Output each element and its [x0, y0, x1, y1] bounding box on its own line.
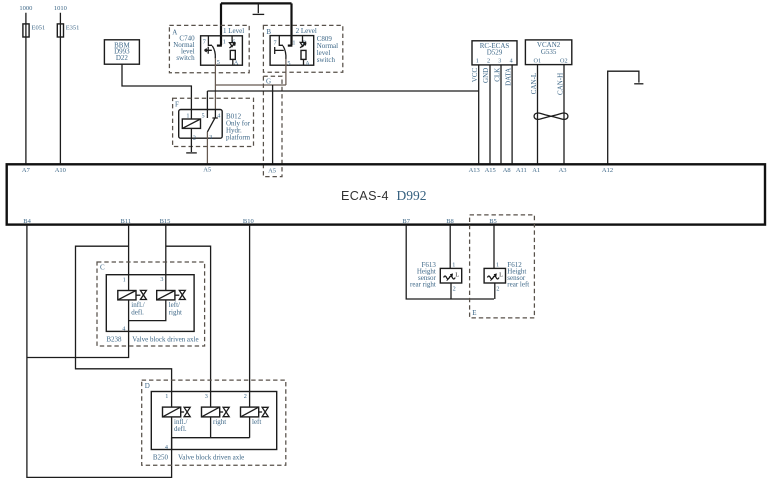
- ECU ECAS-4 D992 box: [7, 164, 765, 224]
- svg-text:B8: B8: [446, 218, 454, 225]
- wire valve D pin4: [171, 438, 173, 450]
- wire from 1000 to ECAS A7: [25, 13, 27, 165]
- svg-text:2: 2: [487, 58, 490, 65]
- svg-text:1: 1: [165, 393, 168, 400]
- switch B resistor: [301, 50, 306, 59]
- svg-text:A: A: [305, 60, 310, 67]
- svg-text:Valve block driven axle: Valve block driven axle: [178, 453, 244, 461]
- wire B10 to valve D pin2: [249, 225, 251, 407]
- switch A actuator arrow: [205, 47, 212, 54]
- switch A LED: [229, 36, 235, 48]
- wire relay pin5 to RC-ECAS VCC net: [207, 90, 478, 92]
- solenoid valve infl/defl (D): [163, 407, 181, 417]
- svg-text:2: 2: [244, 393, 247, 400]
- svg-text:B5: B5: [489, 218, 497, 225]
- svg-text:L: L: [499, 271, 503, 278]
- svg-text:4: 4: [165, 444, 168, 451]
- ground (under relay): [186, 152, 197, 154]
- svg-text:A1: A1: [532, 167, 540, 174]
- svg-text:Valve block driven axle: Valve block driven axle: [132, 336, 198, 344]
- svg-text:platform: platform: [226, 134, 251, 142]
- wire grey net to relay pin4: [214, 85, 216, 110]
- valve block B250 box: [151, 392, 276, 450]
- wire B5 to sensor F612: [493, 225, 495, 269]
- svg-text:1: 1: [123, 276, 126, 283]
- svg-text:7: 7: [203, 39, 206, 46]
- svg-text:A8: A8: [503, 167, 511, 174]
- wire B7 to sensors common: [406, 225, 494, 299]
- wire RC-ECAS pin2 to ECAS A15: [489, 65, 491, 165]
- svg-text:E051: E051: [32, 24, 46, 31]
- switch B actuator: [275, 47, 284, 54]
- wire switch B pin5 down (grey): [285, 65, 287, 85]
- fuse E051: [23, 24, 29, 37]
- svg-text:1: 1: [223, 39, 226, 46]
- box VCAN2 G535: [525, 40, 571, 65]
- svg-text:C: C: [100, 263, 105, 271]
- solenoid valve left/right (C): [157, 291, 175, 300]
- svg-text:A12: A12: [602, 167, 613, 174]
- switch A pin7 internal wire: [208, 36, 212, 46]
- dashed corridor G: [263, 76, 282, 176]
- svg-text:3: 3: [209, 134, 212, 141]
- svg-text:2: 2: [453, 285, 456, 292]
- wire RC-ECAS pin1 to ECAS A13: [478, 65, 480, 165]
- svg-text:A5: A5: [203, 167, 211, 174]
- switch C740 box: [201, 36, 243, 65]
- svg-text:B15: B15: [160, 218, 171, 225]
- relay coil to ground wire: [190, 128, 192, 152]
- switch B pin7 internal wire: [279, 36, 283, 46]
- solenoid valve left (D): [241, 407, 259, 417]
- height sensor F613: [440, 268, 461, 283]
- svg-text:1: 1: [476, 58, 479, 65]
- switch B LED: [300, 36, 306, 48]
- switch C809 box: [270, 36, 314, 66]
- svg-text:A7: A7: [22, 167, 31, 174]
- svg-text:D992: D992: [397, 188, 427, 203]
- wire net drop to ECAS A5 (dashed option): [272, 85, 274, 165]
- svg-text:D: D: [145, 382, 150, 390]
- wire F612 pin2 down: [494, 283, 496, 299]
- wire ECAS A12 to ground: [608, 71, 639, 164]
- svg-text:O2: O2: [560, 57, 568, 64]
- wire BBM to relay pin1: [122, 64, 191, 119]
- svg-text:2: 2: [193, 134, 196, 141]
- wire B11 branch loop to valve D pin1: [76, 246, 172, 407]
- wire B4 down and to valve D pin4: [27, 225, 172, 478]
- svg-text:A5: A5: [268, 168, 276, 175]
- valve block B238 box: [106, 275, 194, 332]
- switch A arm: [212, 46, 215, 59]
- ground (top center): [257, 3, 259, 13]
- svg-text:A15: A15: [485, 167, 496, 174]
- wire bus to switch B pin1: [290, 3, 292, 45]
- solenoid valve right (D): [202, 407, 220, 417]
- svg-text:switch: switch: [317, 56, 336, 64]
- wire B8 to sensor F613: [449, 225, 451, 269]
- svg-text:1: 1: [452, 262, 455, 269]
- svg-text:D529: D529: [487, 49, 503, 57]
- svg-text:3: 3: [205, 393, 208, 400]
- wire RC-ECAS pin3 to ECAS A8: [500, 65, 502, 165]
- wire CAN-L to ECAS A1: [537, 65, 539, 165]
- svg-text:F: F: [175, 100, 179, 108]
- switch B arm: [283, 46, 286, 59]
- switch A pin5 stub: [214, 58, 216, 65]
- svg-text:O1: O1: [534, 57, 542, 64]
- svg-text:A: A: [172, 29, 177, 37]
- svg-text:2: 2: [496, 285, 499, 292]
- svg-text:3: 3: [498, 58, 501, 65]
- dashed box F: [173, 98, 254, 146]
- solenoid valve infl/defl (C): [118, 291, 136, 300]
- wire relay pin3 to ECAS A5: [206, 132, 208, 165]
- wire B15 to valve C pin3: [165, 225, 167, 291]
- svg-text:E351: E351: [66, 24, 80, 31]
- dashed box E: [470, 215, 535, 318]
- wire from 1010 to ECAS A10: [59, 13, 61, 165]
- top bus wire: [221, 2, 292, 4]
- wire RC-ECAS pin4 to ECAS A11: [511, 65, 513, 165]
- wire grey net horizontal: [215, 84, 286, 86]
- svg-text:G: G: [266, 78, 271, 86]
- svg-text:1 Level: 1 Level: [223, 27, 244, 35]
- relay coil: [182, 119, 200, 128]
- svg-text:right: right: [213, 418, 226, 426]
- svg-text:CLK: CLK: [493, 68, 501, 82]
- svg-text:5: 5: [287, 60, 290, 67]
- svg-text:B4: B4: [23, 218, 31, 225]
- svg-text:DATA: DATA: [504, 68, 512, 86]
- wire F613 pin2 down: [450, 283, 452, 299]
- wire B11 to valve C pin1: [128, 225, 130, 291]
- svg-text:4: 4: [510, 58, 513, 65]
- svg-text:left: left: [252, 418, 261, 426]
- height sensor F612: [484, 268, 505, 283]
- twisted pair symbol: [534, 113, 568, 119]
- svg-text:CAN-L: CAN-L: [530, 73, 538, 94]
- relay contact: [206, 91, 208, 118]
- svg-text:5: 5: [202, 113, 205, 120]
- wire bus to switch A pin1: [220, 3, 222, 45]
- wire CAN-H to ECAS A3: [563, 65, 565, 165]
- svg-text:G535: G535: [541, 48, 557, 56]
- svg-text:1010: 1010: [54, 5, 67, 12]
- svg-text:1000: 1000: [19, 5, 32, 12]
- svg-text:1: 1: [496, 262, 499, 269]
- svg-text:A: A: [234, 59, 239, 66]
- svg-text:rear right: rear right: [410, 281, 436, 289]
- svg-text:B11: B11: [120, 218, 131, 225]
- box RC-ECAS D529: [472, 41, 517, 65]
- svg-text:ECAS-4: ECAS-4: [341, 189, 389, 203]
- svg-text:VCC: VCC: [471, 67, 479, 82]
- dashed box B: [263, 25, 342, 72]
- svg-text:5: 5: [217, 59, 220, 66]
- svg-text:B7: B7: [402, 218, 410, 225]
- svg-text:A3: A3: [559, 167, 567, 174]
- svg-text:A10: A10: [55, 167, 66, 174]
- svg-text:GND: GND: [482, 68, 490, 83]
- svg-text:E: E: [472, 309, 476, 317]
- svg-text:B238: B238: [106, 336, 122, 344]
- wire valve C common: [129, 300, 166, 321]
- svg-text:L: L: [455, 271, 459, 278]
- wire switch A pin5 to net (grey): [214, 65, 216, 85]
- svg-text:defl.: defl.: [131, 308, 144, 316]
- svg-text:A13: A13: [469, 167, 480, 174]
- dashed box D: [142, 380, 286, 465]
- svg-text:right: right: [169, 308, 182, 316]
- wire valve D common: [172, 417, 250, 438]
- svg-text:4: 4: [122, 326, 125, 333]
- dashed box A: [169, 25, 249, 72]
- svg-text:A11: A11: [516, 167, 527, 174]
- svg-text:switch: switch: [176, 54, 195, 62]
- svg-text:7: 7: [274, 39, 277, 46]
- svg-text:B250: B250: [153, 453, 169, 461]
- wire B15 branch to valve D pin3: [166, 246, 211, 407]
- svg-text:1: 1: [292, 40, 295, 47]
- wire valve C pin4 to B4 wire: [27, 300, 129, 358]
- ground (top right): [634, 83, 643, 85]
- svg-text:CAN-H: CAN-H: [556, 73, 564, 95]
- svg-text:B10: B10: [243, 218, 254, 225]
- svg-text:defl.: defl.: [174, 425, 187, 433]
- svg-text:2 Level: 2 Level: [296, 27, 317, 35]
- svg-text:rear left: rear left: [507, 281, 529, 289]
- switch A resistor: [230, 50, 235, 59]
- switch B pin5 stub: [285, 59, 287, 65]
- fuse E351: [57, 24, 63, 37]
- svg-text:3: 3: [160, 276, 163, 283]
- box BBM D993 D22: [104, 40, 139, 64]
- relay B012 box: [179, 110, 223, 139]
- svg-text:D22: D22: [116, 54, 129, 62]
- dashed box C: [97, 262, 205, 346]
- svg-text:B: B: [266, 28, 271, 36]
